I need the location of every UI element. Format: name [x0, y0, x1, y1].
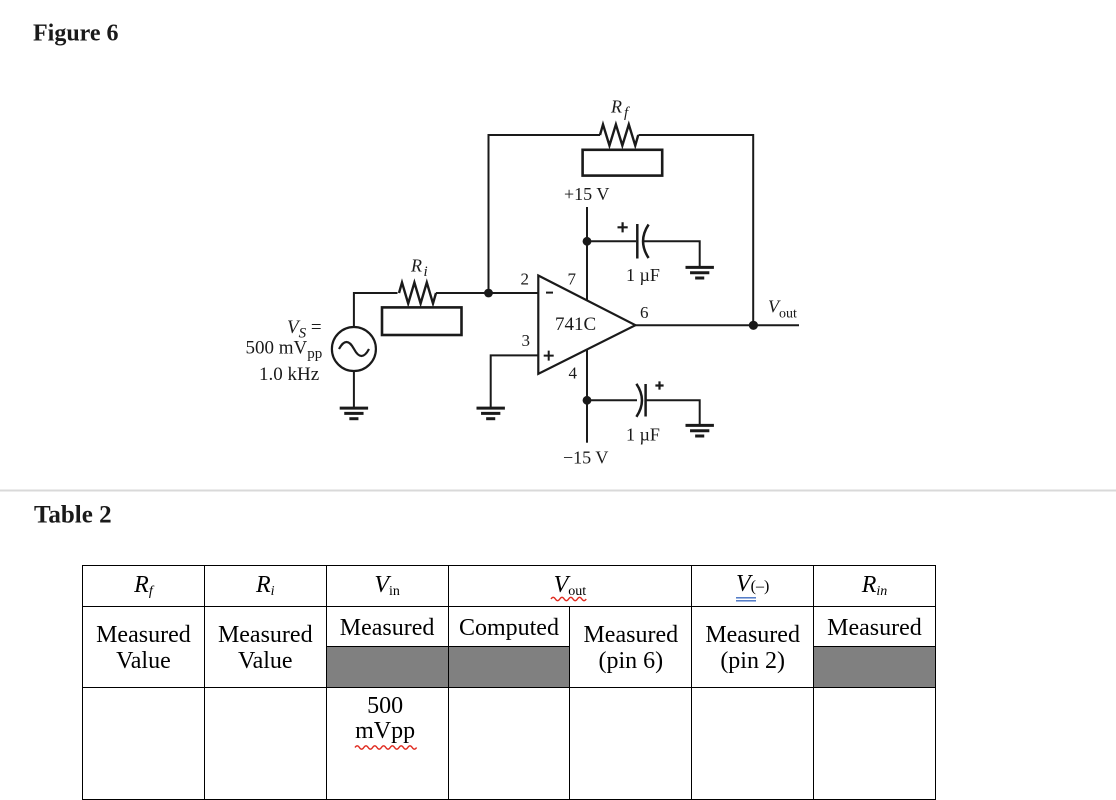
minus sign at inverting input [546, 292, 553, 294]
output node dot [749, 321, 758, 330]
wire: output [635, 324, 799, 326]
svg-text:1.0 kHz: 1.0 kHz [259, 364, 319, 385]
svg-text:Rf: Rf [610, 97, 630, 122]
svg-text:500 mVpp: 500 mVpp [246, 338, 323, 363]
svg-text:Figure 6: Figure 6 [33, 21, 119, 47]
spellcheck squiggle under mVpp [355, 746, 417, 749]
voltage source Vs [332, 327, 376, 371]
plus sign at non-inverting input [544, 351, 554, 361]
svg-text:+15 V: +15 V [564, 184, 609, 204]
junction dot (pin4 rail) [583, 396, 592, 405]
svg-text:3: 3 [522, 331, 531, 350]
ground (source) [340, 408, 368, 419]
wire: feedback loop up and across [489, 135, 754, 326]
svg-text:−15 V: −15 V [563, 447, 608, 467]
plus polarity mark C2 [655, 381, 663, 389]
svg-text:Table 2: Table 2 [34, 502, 112, 529]
svg-text:1 µF: 1 µF [626, 265, 660, 285]
grammar double underline under V( header [736, 598, 756, 601]
capacitor C2 1uF (curved plate left) [636, 384, 645, 417]
svg-text:Ri: Ri [410, 256, 428, 281]
wire: non-inverting input to ground [491, 355, 539, 407]
wire: C1 to ground [644, 241, 700, 267]
node junction dot (inverting input) [484, 289, 493, 298]
svg-text:4: 4 [569, 364, 578, 383]
value box for Ri [382, 307, 462, 335]
wire: +15V rail to pin 7 [586, 207, 588, 300]
ground (pin 3) [477, 408, 505, 419]
capacitor C1 1uF (plus plate straight) [637, 224, 648, 259]
wire: source top to Ri [354, 293, 398, 327]
wire: source to ground [353, 371, 355, 408]
wire: pin 4 to -15V rail [586, 350, 588, 443]
svg-text:Vout: Vout [768, 297, 797, 322]
wire: rail to top bypass cap [587, 240, 636, 242]
svg-text:6: 6 [640, 303, 649, 322]
spellcheck squiggle under Vout header [551, 597, 586, 600]
section divider [0, 490, 1116, 492]
ground (C2) [686, 425, 714, 436]
svg-text:1 µF: 1 µF [626, 425, 660, 445]
svg-text:VS =: VS = [287, 317, 322, 342]
wire: C2 to ground [646, 400, 700, 425]
svg-text:7: 7 [568, 270, 577, 289]
ground (C1) [686, 267, 714, 278]
svg-text:2: 2 [521, 270, 530, 289]
value box for Rf [583, 150, 663, 176]
wire: rail to bottom bypass cap [587, 399, 637, 401]
resistor Ri [399, 283, 436, 304]
junction dot (pin7 rail) [583, 237, 592, 246]
op-amp U1 741C [538, 276, 635, 374]
svg-text:741C: 741C [555, 314, 596, 335]
plus polarity mark C1 [618, 222, 628, 232]
resistor Rf [600, 125, 638, 146]
wire: Ri to inverting input with node [436, 292, 538, 294]
data table [82, 565, 936, 800]
